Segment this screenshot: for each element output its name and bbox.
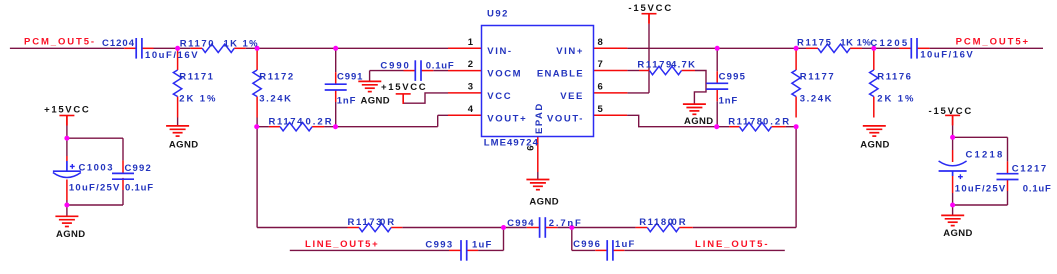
svg-text:VIN-: VIN- (487, 46, 512, 57)
svg-text:4: 4 (468, 104, 474, 115)
svg-text:C1218: C1218 (966, 149, 1005, 160)
svg-text:U92: U92 (487, 9, 509, 20)
svg-text:C992: C992 (125, 163, 153, 174)
svg-text:R1180: R1180 (639, 217, 674, 228)
svg-text:1uF: 1uF (472, 239, 493, 250)
svg-text:R1175: R1175 (797, 38, 832, 49)
svg-text:2K 1%: 2K 1% (877, 94, 915, 105)
svg-text:VOCM: VOCM (487, 69, 522, 80)
svg-text:PCM_OUT5+: PCM_OUT5+ (956, 37, 1030, 48)
svg-text:1K 1%: 1K 1% (840, 38, 871, 49)
svg-text:C993: C993 (425, 239, 453, 250)
svg-text:R1177: R1177 (800, 71, 835, 82)
svg-text:VEE: VEE (560, 91, 584, 102)
svg-text:2: 2 (468, 59, 473, 70)
svg-text:VOUT-: VOUT- (547, 113, 584, 124)
svg-text:-15VCC: -15VCC (628, 3, 673, 14)
svg-text:1uF: 1uF (615, 239, 636, 250)
svg-text:-15VCC: -15VCC (929, 106, 974, 117)
svg-text:R1170: R1170 (180, 39, 215, 50)
svg-text:C995: C995 (719, 71, 747, 82)
svg-text:C991: C991 (337, 71, 363, 82)
svg-text:R1171: R1171 (179, 71, 214, 82)
svg-text:VOUT+: VOUT+ (487, 113, 527, 124)
svg-text:EPAD: EPAD (534, 102, 545, 134)
svg-text:10uF/16V: 10uF/16V (145, 50, 199, 61)
svg-text:3.24K: 3.24K (259, 94, 292, 105)
svg-text:R1179: R1179 (637, 60, 672, 71)
svg-text:7: 7 (598, 59, 603, 70)
svg-text:VIN+: VIN+ (556, 46, 584, 57)
svg-text:6: 6 (598, 81, 603, 92)
svg-text:AGND: AGND (943, 228, 973, 239)
svg-text:AGND: AGND (684, 116, 714, 127)
svg-text:+15VCC: +15VCC (44, 104, 90, 115)
svg-text:3: 3 (468, 81, 473, 92)
svg-text:R1178: R1178 (728, 116, 763, 127)
svg-text:5: 5 (598, 104, 604, 115)
svg-text:R1172: R1172 (259, 71, 294, 82)
svg-text:C990: C990 (380, 61, 410, 72)
svg-text:1nF: 1nF (719, 95, 738, 106)
svg-text:LME49724: LME49724 (484, 138, 539, 149)
svg-text:LINE_OUT5+: LINE_OUT5+ (305, 239, 379, 250)
svg-text:3.24K: 3.24K (800, 94, 833, 105)
svg-text:10uF/25V: 10uF/25V (69, 182, 121, 193)
svg-text:PCM_OUT5-: PCM_OUT5- (24, 37, 96, 48)
svg-text:C996: C996 (573, 239, 601, 250)
svg-text:1K 1%: 1K 1% (224, 39, 260, 50)
svg-text:8: 8 (598, 37, 603, 48)
svg-text:1nF: 1nF (337, 95, 356, 106)
svg-text:ENABLE: ENABLE (537, 69, 584, 80)
svg-text:+15VCC: +15VCC (381, 82, 427, 93)
svg-text:C1204: C1204 (102, 38, 135, 49)
svg-text:AGND: AGND (860, 140, 890, 151)
svg-text:R1173: R1173 (348, 217, 383, 228)
svg-text:R1174: R1174 (269, 116, 304, 127)
svg-text:C1217: C1217 (1012, 164, 1048, 175)
svg-text:0.1uF: 0.1uF (125, 182, 154, 193)
svg-text:LINE_OUT5-: LINE_OUT5- (695, 239, 769, 250)
svg-text:2K 1%: 2K 1% (179, 94, 217, 105)
svg-text:VCC: VCC (487, 91, 512, 102)
svg-text:10uF/25V: 10uF/25V (955, 184, 1007, 195)
svg-text:0.2R: 0.2R (763, 116, 791, 127)
svg-text:10uF/16V: 10uF/16V (920, 50, 974, 61)
svg-text:0.1uF: 0.1uF (426, 61, 455, 72)
svg-text:AGND: AGND (169, 140, 199, 151)
svg-text:2.7nF: 2.7nF (549, 218, 583, 229)
svg-text:0.2R: 0.2R (306, 116, 334, 127)
svg-text:4.7K: 4.7K (671, 60, 696, 71)
svg-text:C1205: C1205 (870, 38, 909, 49)
svg-text:0R: 0R (380, 217, 396, 228)
svg-text:1: 1 (468, 37, 474, 48)
svg-text:AGND: AGND (361, 95, 391, 106)
svg-text:C994: C994 (507, 218, 535, 229)
svg-text:C1003: C1003 (79, 162, 115, 173)
svg-text:AGND: AGND (529, 196, 559, 207)
svg-text:0R: 0R (672, 217, 688, 228)
svg-text:AGND: AGND (56, 229, 86, 240)
svg-text:0.1uF: 0.1uF (1023, 184, 1052, 195)
svg-text:R1176: R1176 (877, 71, 912, 82)
